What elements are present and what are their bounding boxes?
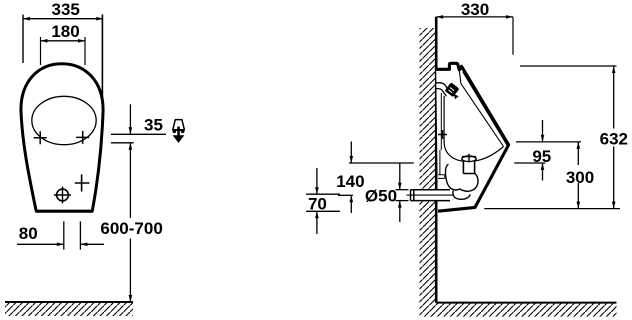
water inlet icon — [173, 120, 185, 143]
dimension 35 upper reference line — [111, 133, 166, 135]
dimension 300 up arrow — [577, 142, 581, 149]
svg-text:632: 632 — [600, 130, 628, 149]
dimension 600-700 up arrow — [129, 143, 133, 150]
dimension 80 line right with arrow — [80, 243, 104, 245]
drain outlet symbol — [54, 187, 71, 204]
dimension 140 lower arrow — [350, 195, 352, 213]
dimension 632 up arrow — [612, 66, 616, 73]
dimension 70 upper arrow — [316, 168, 318, 194]
fixing hole cross — [75, 174, 90, 191]
outlet pipe through wall — [407, 190, 454, 201]
dimension 600-700 line upper part — [129, 143, 131, 218]
svg-text:600-700: 600-700 — [100, 219, 162, 238]
dimension 300 down arrow — [577, 202, 581, 209]
extension line right of 335 — [101, 15, 103, 109]
dimension 80 line left with arrow — [17, 243, 64, 245]
urinal rim ellipse — [32, 96, 96, 144]
top reference line (urinal top level) — [520, 65, 617, 67]
dimension 70 lower reference line — [306, 210, 340, 212]
floor hatching (front view) — [5, 303, 133, 316]
left rim cross — [34, 131, 47, 144]
overflow spreader dome — [462, 154, 476, 162]
dimension 330 arrow left — [436, 15, 443, 19]
dimension 632 down arrow — [612, 202, 616, 209]
dimension 600-700 line lower part — [129, 239, 131, 303]
extension line right of 180 — [84, 37, 86, 65]
interior bowl curve — [444, 96, 503, 162]
dimension 330 line — [436, 16, 513, 18]
dimension 95 lower arrow — [542, 163, 544, 181]
dimension 95 upper reference line — [516, 141, 581, 143]
dimension 300 line — [577, 142, 579, 209]
svg-text:300: 300 — [566, 168, 594, 187]
dimension 632 line — [613, 66, 615, 209]
extension line left of 180 — [40, 37, 42, 65]
interior back line — [440, 93, 442, 150]
svg-text:330: 330 — [461, 0, 489, 19]
svg-text:140: 140 — [336, 172, 364, 191]
trap foot — [453, 191, 470, 200]
dimension Ø50 lower arrow — [399, 201, 401, 222]
inner rim line 1 — [463, 72, 508, 146]
svg-text:70: 70 — [308, 194, 327, 213]
dimension 35 upper arrow stem — [129, 104, 131, 134]
bottom reference line (urinal bottom level) — [484, 208, 620, 210]
wall hatching — [420, 28, 617, 317]
inlet pipe from wall — [436, 83, 450, 96]
dimension 180 line — [41, 40, 86, 42]
dimension 80 extension line right — [79, 221, 81, 249]
urinal front outline — [21, 64, 103, 212]
wall face line — [435, 17, 438, 303]
svg-text:335: 335 — [52, 0, 80, 19]
spreader nozzle — [446, 84, 459, 100]
svg-text:180: 180 — [51, 22, 79, 41]
dimension 80 extension line left — [63, 221, 65, 249]
dimension 35 down arrow — [129, 127, 133, 134]
dimension 70 upper reference line — [306, 193, 340, 195]
dimension 600-700 down arrow at floor — [129, 295, 133, 302]
dimension 180 arrow right — [78, 39, 85, 43]
dimension Ø50 upper arrow — [399, 163, 401, 190]
svg-text:80: 80 — [19, 224, 38, 243]
dimension 180 arrow left — [41, 39, 48, 43]
right rim cross — [76, 131, 89, 144]
floor line (side view) — [436, 302, 616, 304]
dimension 140 lower tick — [338, 194, 353, 196]
back fixing cross — [438, 130, 447, 139]
dimension 70 lower arrow — [316, 211, 318, 234]
dimension Ø50 upper tick — [396, 189, 409, 191]
trap body left lobe — [446, 164, 459, 190]
urinal front bottom edge — [35, 210, 93, 213]
dimension 335 line — [23, 18, 103, 20]
back channel lines — [438, 150, 445, 178]
dimension 632 label — [600, 129, 629, 149]
dimension Ø50 lower tick — [396, 200, 409, 202]
dimension 300 label — [565, 165, 594, 187]
svg-text:Ø50: Ø50 — [365, 187, 397, 206]
floor line (front view) — [5, 301, 133, 303]
dimension 95 upper arrow — [542, 120, 544, 142]
dimension 330 right extension line — [512, 17, 514, 55]
dimension 95 lower reference line — [514, 162, 545, 164]
extension line left of 335 — [22, 15, 24, 64]
overflow collar — [463, 162, 474, 174]
dimension 335 arrow right — [96, 17, 103, 21]
inner rim line 2 — [459, 70, 503, 146]
dimension 35 lower reference line — [111, 142, 134, 144]
svg-text:35: 35 — [144, 115, 163, 134]
dimension 140 upper arrow — [350, 142, 352, 164]
dimension 140 reference line — [349, 162, 414, 164]
trap body right lobe — [459, 174, 478, 192]
dimension 330 arrow right — [506, 15, 513, 19]
dimension 335 arrow left — [23, 17, 30, 21]
urinal side profile — [436, 63, 508, 211]
svg-text:95: 95 — [532, 147, 551, 166]
